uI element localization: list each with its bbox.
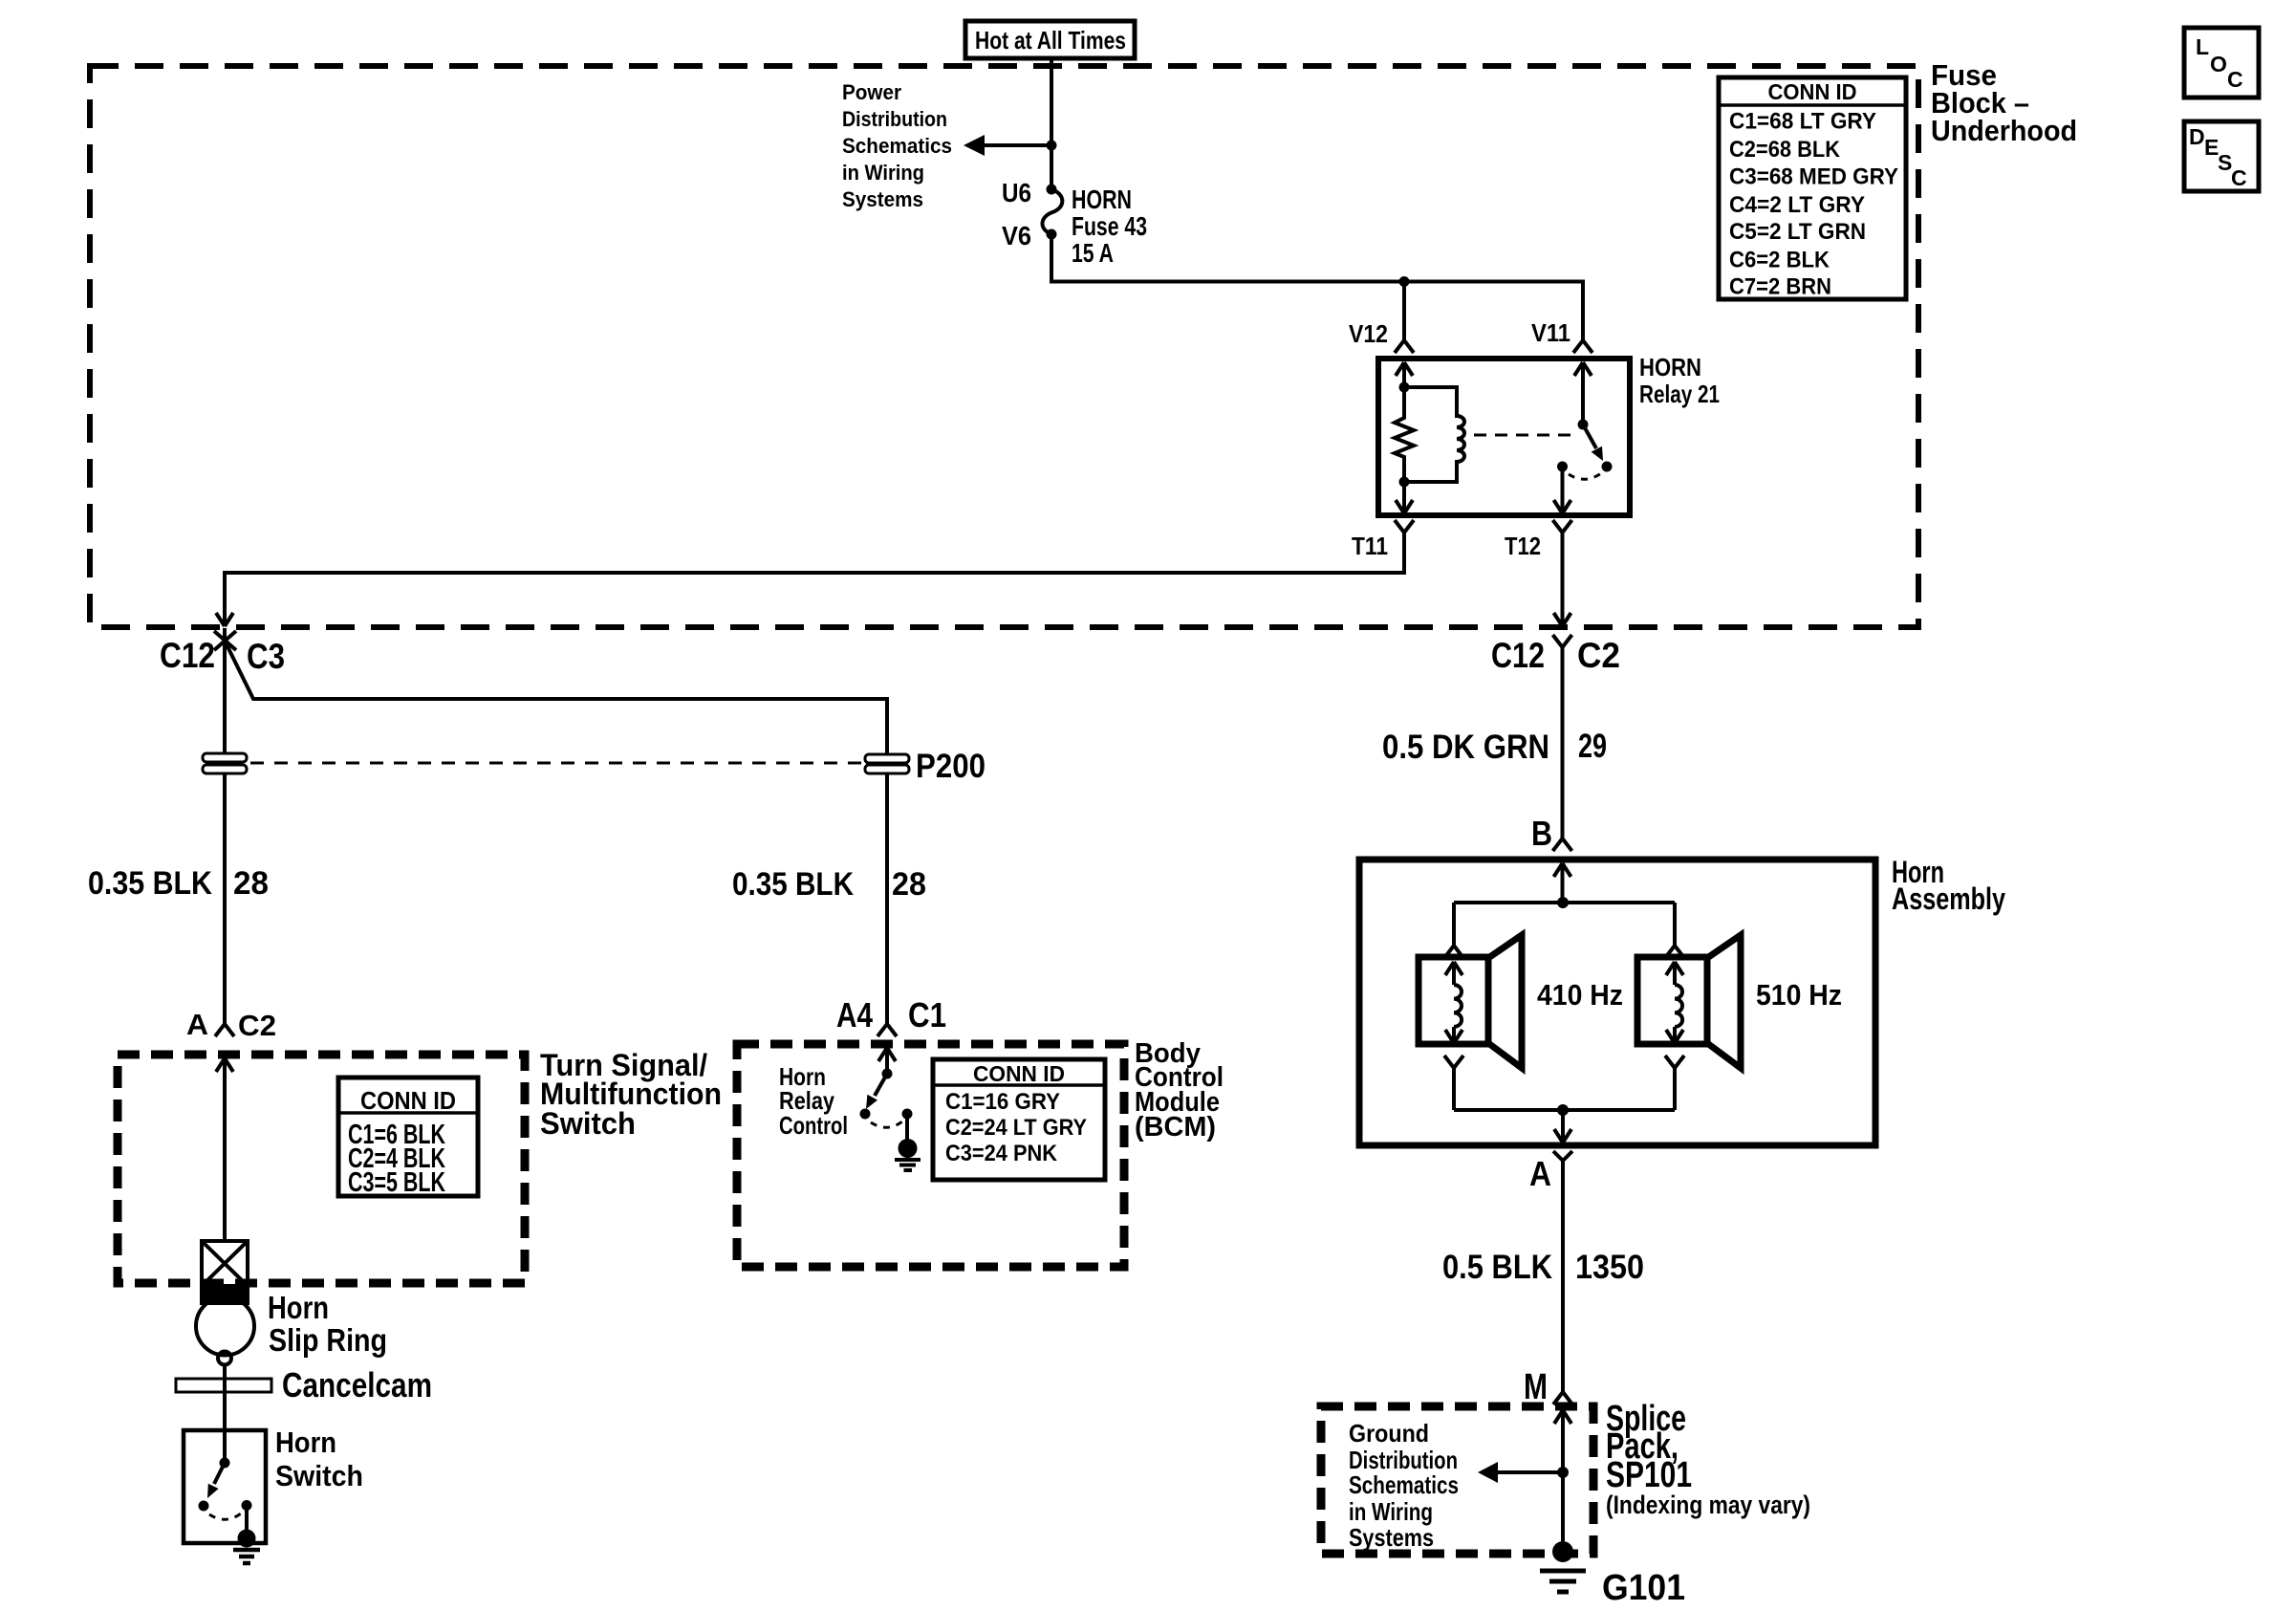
svg-text:C2: C2 xyxy=(1577,636,1620,675)
terminal below 510 Hz horn xyxy=(1665,1056,1684,1110)
BCM ground stem xyxy=(905,1114,909,1142)
svg-text:C1=16 GRY: C1=16 GRY xyxy=(945,1089,1060,1115)
BCM CONN ID table xyxy=(933,1059,1105,1180)
svg-text:D: D xyxy=(2189,124,2205,149)
horn assembly box xyxy=(1359,860,1875,1145)
svg-text:0.35 BLK: 0.35 BLK xyxy=(88,865,212,902)
relay switch arm end node xyxy=(1602,462,1613,472)
svg-text:O: O xyxy=(2210,52,2227,76)
terminal V11 xyxy=(1531,318,1592,353)
slip ring contact bar xyxy=(200,1287,249,1305)
svg-text:in Wiring: in Wiring xyxy=(1349,1497,1433,1526)
svg-text:C3=5 BLK: C3=5 BLK xyxy=(348,1167,445,1198)
svg-text:C5=2 LT GRN: C5=2 LT GRN xyxy=(1729,219,1866,245)
relay resistor xyxy=(1395,387,1414,482)
arrow at fuse block exit right xyxy=(1554,598,1571,626)
arrow into turn signal switch xyxy=(216,1058,233,1241)
BCM closed contact node xyxy=(902,1109,913,1120)
terminal A C2 xyxy=(186,1008,276,1042)
svg-text:C: C xyxy=(2231,165,2247,190)
relay switch arm xyxy=(1583,425,1603,461)
ground node G101 xyxy=(1552,1541,1573,1562)
svg-text:A4: A4 xyxy=(836,995,873,1034)
svg-text:Schematics: Schematics xyxy=(842,134,952,158)
relay actuation dashed link xyxy=(1474,434,1577,437)
svg-text:HORN: HORN xyxy=(1072,185,1132,214)
horn switch ground stem xyxy=(245,1506,249,1531)
svg-text:(BCM): (BCM) xyxy=(1135,1112,1216,1143)
wire from Hot at All Times to fuse xyxy=(1050,58,1053,189)
terminal T12 xyxy=(1505,520,1572,560)
relay switch contact node xyxy=(1557,462,1568,472)
svg-text:28: 28 xyxy=(233,865,269,902)
svg-text:C4=2 LT GRY: C4=2 LT GRY xyxy=(1729,192,1865,218)
svg-text:C12: C12 xyxy=(1491,636,1545,675)
arrow at fuse block exit left xyxy=(216,598,233,626)
svg-text:C2: C2 xyxy=(238,1009,276,1042)
wire to 410 Hz horn xyxy=(1444,903,1463,958)
junction node feeder split xyxy=(1399,276,1410,287)
svg-text:U6: U6 xyxy=(1002,178,1031,207)
label Fuse Block Underhood xyxy=(1931,58,2077,147)
label Cancelcam xyxy=(282,1365,432,1404)
wire label 0.35 BLK 28 middle xyxy=(732,866,926,903)
terminal T11 xyxy=(1352,520,1414,560)
BCM switch throw dashed arc xyxy=(871,1121,902,1127)
wire T12 to fuse block bottom exit xyxy=(1561,533,1565,622)
horn switch throw dashed arc xyxy=(209,1513,241,1519)
DESC reference box xyxy=(2184,121,2259,191)
svg-text:C3=24 PNK: C3=24 PNK xyxy=(945,1141,1058,1166)
terminal A4 C1 xyxy=(836,995,946,1036)
horn 510 Hz body xyxy=(1637,935,1741,1068)
label G101 xyxy=(1602,1568,1685,1608)
label Power Distribution Schematics in Wiring Systems xyxy=(842,80,952,211)
fuse block CONN ID table xyxy=(1719,77,1906,300)
label Horn Assembly xyxy=(1892,855,2005,916)
horn assembly bottom collector wire xyxy=(1454,1108,1675,1112)
horn assembly top distribution wire xyxy=(1454,901,1675,904)
cancelcam bar xyxy=(176,1379,271,1392)
svg-text:28: 28 xyxy=(892,866,926,903)
svg-text:510 Hz: 510 Hz xyxy=(1756,978,1842,1012)
BCM ground node xyxy=(899,1139,918,1158)
svg-text:Systems: Systems xyxy=(1349,1523,1434,1552)
relay coil pin arrow T11 inside xyxy=(1396,482,1413,513)
svg-text:V11: V11 xyxy=(1531,318,1570,347)
slip ring brush xyxy=(218,1352,231,1365)
svg-text:C1=68 LT GRY: C1=68 LT GRY xyxy=(1729,109,1876,135)
svg-text:Underhood: Underhood xyxy=(1931,114,2077,147)
wire slip ring to cancelcam xyxy=(223,1365,227,1431)
svg-text:Slip Ring: Slip Ring xyxy=(269,1322,387,1358)
horn slip ring rotor xyxy=(196,1297,254,1356)
svg-text:Hot at All Times: Hot at All Times xyxy=(975,26,1126,54)
svg-text:M: M xyxy=(1524,1367,1548,1407)
splice pack SP101 dashed box xyxy=(1321,1406,1593,1554)
svg-text:410 Hz: 410 Hz xyxy=(1537,978,1623,1012)
svg-text:C7=2 BRN: C7=2 BRN xyxy=(1729,274,1831,300)
svg-text:0.5 DK GRN: 0.5 DK GRN xyxy=(1382,729,1549,766)
svg-text:Ground: Ground xyxy=(1349,1419,1429,1448)
BCM switch pivot node xyxy=(882,1069,893,1079)
horn switch pivot node xyxy=(220,1458,230,1469)
grommet P200 xyxy=(865,754,909,773)
svg-text:A: A xyxy=(186,1008,208,1041)
relay switch pin arrow V11 inside xyxy=(1574,362,1592,425)
label Ground Distribution Schematics in Wiring Systems xyxy=(1349,1419,1459,1552)
horn assembly top junction node xyxy=(1557,897,1569,908)
wire C3 branch diagonal to P200 xyxy=(225,641,887,754)
terminal below 410 Hz horn xyxy=(1444,1056,1463,1110)
relay switch throw dashed arc xyxy=(1569,473,1601,479)
fuse value label xyxy=(1072,185,1147,268)
arrow to Power Distribution Schematics xyxy=(964,135,1051,156)
connector crossing C12 C3 xyxy=(160,631,285,676)
svg-text:0.5 BLK: 0.5 BLK xyxy=(1442,1249,1552,1286)
horn switch S1 box xyxy=(184,1430,266,1543)
label P200 xyxy=(916,748,986,785)
grommet left xyxy=(203,753,247,773)
svg-text:P200: P200 xyxy=(916,748,986,785)
horn assembly bottom junction node xyxy=(1557,1104,1569,1116)
wire label 0.5 DK GRN 29 xyxy=(1382,728,1607,766)
horn switch arm xyxy=(207,1463,225,1498)
label Horn Relay Control xyxy=(779,1062,848,1140)
wire C12 branch down to grommet xyxy=(223,628,227,753)
wire label 0.35 BLK 28 left xyxy=(88,865,269,902)
svg-text:CONN ID: CONN ID xyxy=(973,1061,1065,1086)
arrow into horn assembly xyxy=(1554,863,1571,903)
wire 0.35 BLK 28 middle xyxy=(885,773,889,1024)
svg-text:1350: 1350 xyxy=(1575,1249,1644,1286)
svg-text:Fuse 43: Fuse 43 xyxy=(1072,211,1147,241)
arrow into BCM xyxy=(878,1048,896,1074)
terminal V12 xyxy=(1349,319,1414,353)
label 410 Hz xyxy=(1537,978,1623,1012)
label Splice Pack SP101 xyxy=(1606,1399,1810,1519)
svg-text:Systems: Systems xyxy=(842,187,923,211)
ground symbol at horn switch xyxy=(233,1550,260,1563)
label Turn Signal Multifunction Switch xyxy=(540,1048,722,1141)
svg-text:C12: C12 xyxy=(160,636,215,675)
svg-text:L: L xyxy=(2196,34,2209,59)
svg-text:Power: Power xyxy=(842,80,901,104)
terminal C12 C2 xyxy=(1491,635,1620,675)
power feed box Hot at All Times xyxy=(965,21,1135,58)
svg-text:Horn: Horn xyxy=(268,1290,329,1325)
label Horn Slip Ring xyxy=(268,1290,387,1358)
horn 410 Hz coil xyxy=(1445,962,1462,1043)
svg-text:Control: Control xyxy=(779,1111,848,1140)
ground symbol G101 xyxy=(1540,1571,1586,1592)
svg-text:Switch: Switch xyxy=(275,1459,363,1492)
BCM open contact node xyxy=(860,1109,871,1120)
relay switch pivot node xyxy=(1578,420,1589,430)
arrow out of horn assembly xyxy=(1554,1110,1571,1143)
pin U6 xyxy=(1002,178,1031,207)
svg-text:A: A xyxy=(1529,1154,1551,1193)
horn switch ground node xyxy=(238,1530,256,1548)
svg-text:V12: V12 xyxy=(1349,319,1388,348)
wire T11 to fuse block left exit C12 xyxy=(225,533,1404,622)
dashed pass-through link P200 xyxy=(250,762,861,765)
svg-text:CONN ID: CONN ID xyxy=(1768,79,1857,104)
svg-text:C: C xyxy=(2227,67,2243,92)
svg-text:C6=2 BLK: C6=2 BLK xyxy=(1729,248,1830,273)
svg-text:Switch: Switch xyxy=(540,1106,636,1141)
svg-text:Distribution: Distribution xyxy=(842,107,947,131)
svg-text:C2=68 BLK: C2=68 BLK xyxy=(1729,137,1841,163)
terminal A below horn assembly xyxy=(1529,1151,1572,1193)
relay K21 HORN Relay 21 box xyxy=(1378,359,1630,515)
label 510 Hz xyxy=(1756,978,1842,1012)
wire to 510 Hz horn xyxy=(1665,903,1684,958)
turn signal CONN ID table xyxy=(338,1078,478,1198)
svg-text:(Indexing may vary): (Indexing may vary) xyxy=(1606,1491,1810,1519)
svg-text:HORN: HORN xyxy=(1639,353,1701,381)
svg-text:CONN ID: CONN ID xyxy=(360,1086,456,1115)
body control module dashed box xyxy=(737,1044,1124,1267)
svg-text:C3: C3 xyxy=(247,637,285,676)
ground symbol in BCM xyxy=(895,1160,921,1170)
svg-text:Schematics: Schematics xyxy=(1349,1470,1459,1499)
svg-text:Assembly: Assembly xyxy=(1892,882,2005,916)
crossed box connector of slip ring xyxy=(202,1241,248,1286)
wire 0.35 BLK 28 left xyxy=(223,773,227,1024)
svg-text:T11: T11 xyxy=(1352,532,1388,560)
svg-text:G101: G101 xyxy=(1602,1568,1685,1608)
wire 0.5 DK GRN 29 xyxy=(1561,647,1565,838)
fuse F43 HORN Fuse 43 15 A xyxy=(1043,185,1063,240)
svg-text:SP101: SP101 xyxy=(1606,1455,1692,1495)
horn switch wire into box xyxy=(223,1430,227,1463)
LOC reference box xyxy=(2184,28,2259,98)
fuse block underhood dashed border xyxy=(90,66,1918,627)
relay coil node bottom xyxy=(1399,477,1410,488)
svg-text:T12: T12 xyxy=(1505,532,1541,560)
horn 510 Hz coil xyxy=(1666,962,1683,1043)
svg-text:C1: C1 xyxy=(908,995,946,1034)
svg-text:15 A: 15 A xyxy=(1072,238,1114,268)
terminal B xyxy=(1531,814,1572,853)
svg-text:29: 29 xyxy=(1578,728,1607,765)
junction node at power distribution tap xyxy=(1047,141,1057,151)
svg-text:B: B xyxy=(1531,814,1552,853)
label Body Control Module BCM xyxy=(1135,1038,1224,1143)
horn switch closed contact node xyxy=(242,1500,252,1511)
horn switch open contact node xyxy=(199,1501,209,1512)
wire 0.5 BLK 1350 xyxy=(1561,1161,1565,1392)
wire fuse output feeder to relay pins xyxy=(1051,234,1583,340)
svg-text:Cancelcam: Cancelcam xyxy=(282,1365,432,1404)
BCM horn relay control switch arm xyxy=(866,1074,887,1109)
svg-text:Relay 21: Relay 21 xyxy=(1639,380,1720,408)
wire splice to ground xyxy=(1561,1472,1565,1541)
label Horn Switch xyxy=(275,1426,363,1492)
splice junction node xyxy=(1557,1467,1569,1478)
horn 410 Hz body xyxy=(1419,935,1522,1068)
arrow into splice pack xyxy=(1554,1410,1571,1472)
svg-text:V6: V6 xyxy=(1002,221,1031,250)
relay coil pin arrow V12 inside xyxy=(1396,362,1413,387)
relay coil node top xyxy=(1399,382,1410,393)
arrow to ground distribution schematics xyxy=(1478,1462,1563,1483)
turn signal multifunction switch dashed box xyxy=(118,1055,525,1283)
svg-text:0.35 BLK: 0.35 BLK xyxy=(732,866,854,903)
relay coil L1 xyxy=(1404,387,1464,482)
terminal M xyxy=(1524,1367,1572,1407)
relay label HORN Relay 21 xyxy=(1639,353,1720,408)
svg-text:Horn: Horn xyxy=(275,1426,336,1459)
svg-text:C2=24 LT GRY: C2=24 LT GRY xyxy=(945,1115,1087,1141)
svg-text:C3=68 MED GRY: C3=68 MED GRY xyxy=(1729,164,1898,190)
svg-text:in Wiring: in Wiring xyxy=(842,161,924,185)
pin V6 xyxy=(1002,221,1031,250)
relay contact pin arrow T12 inside xyxy=(1554,467,1571,513)
wire label 0.5 BLK 1350 xyxy=(1442,1249,1644,1286)
